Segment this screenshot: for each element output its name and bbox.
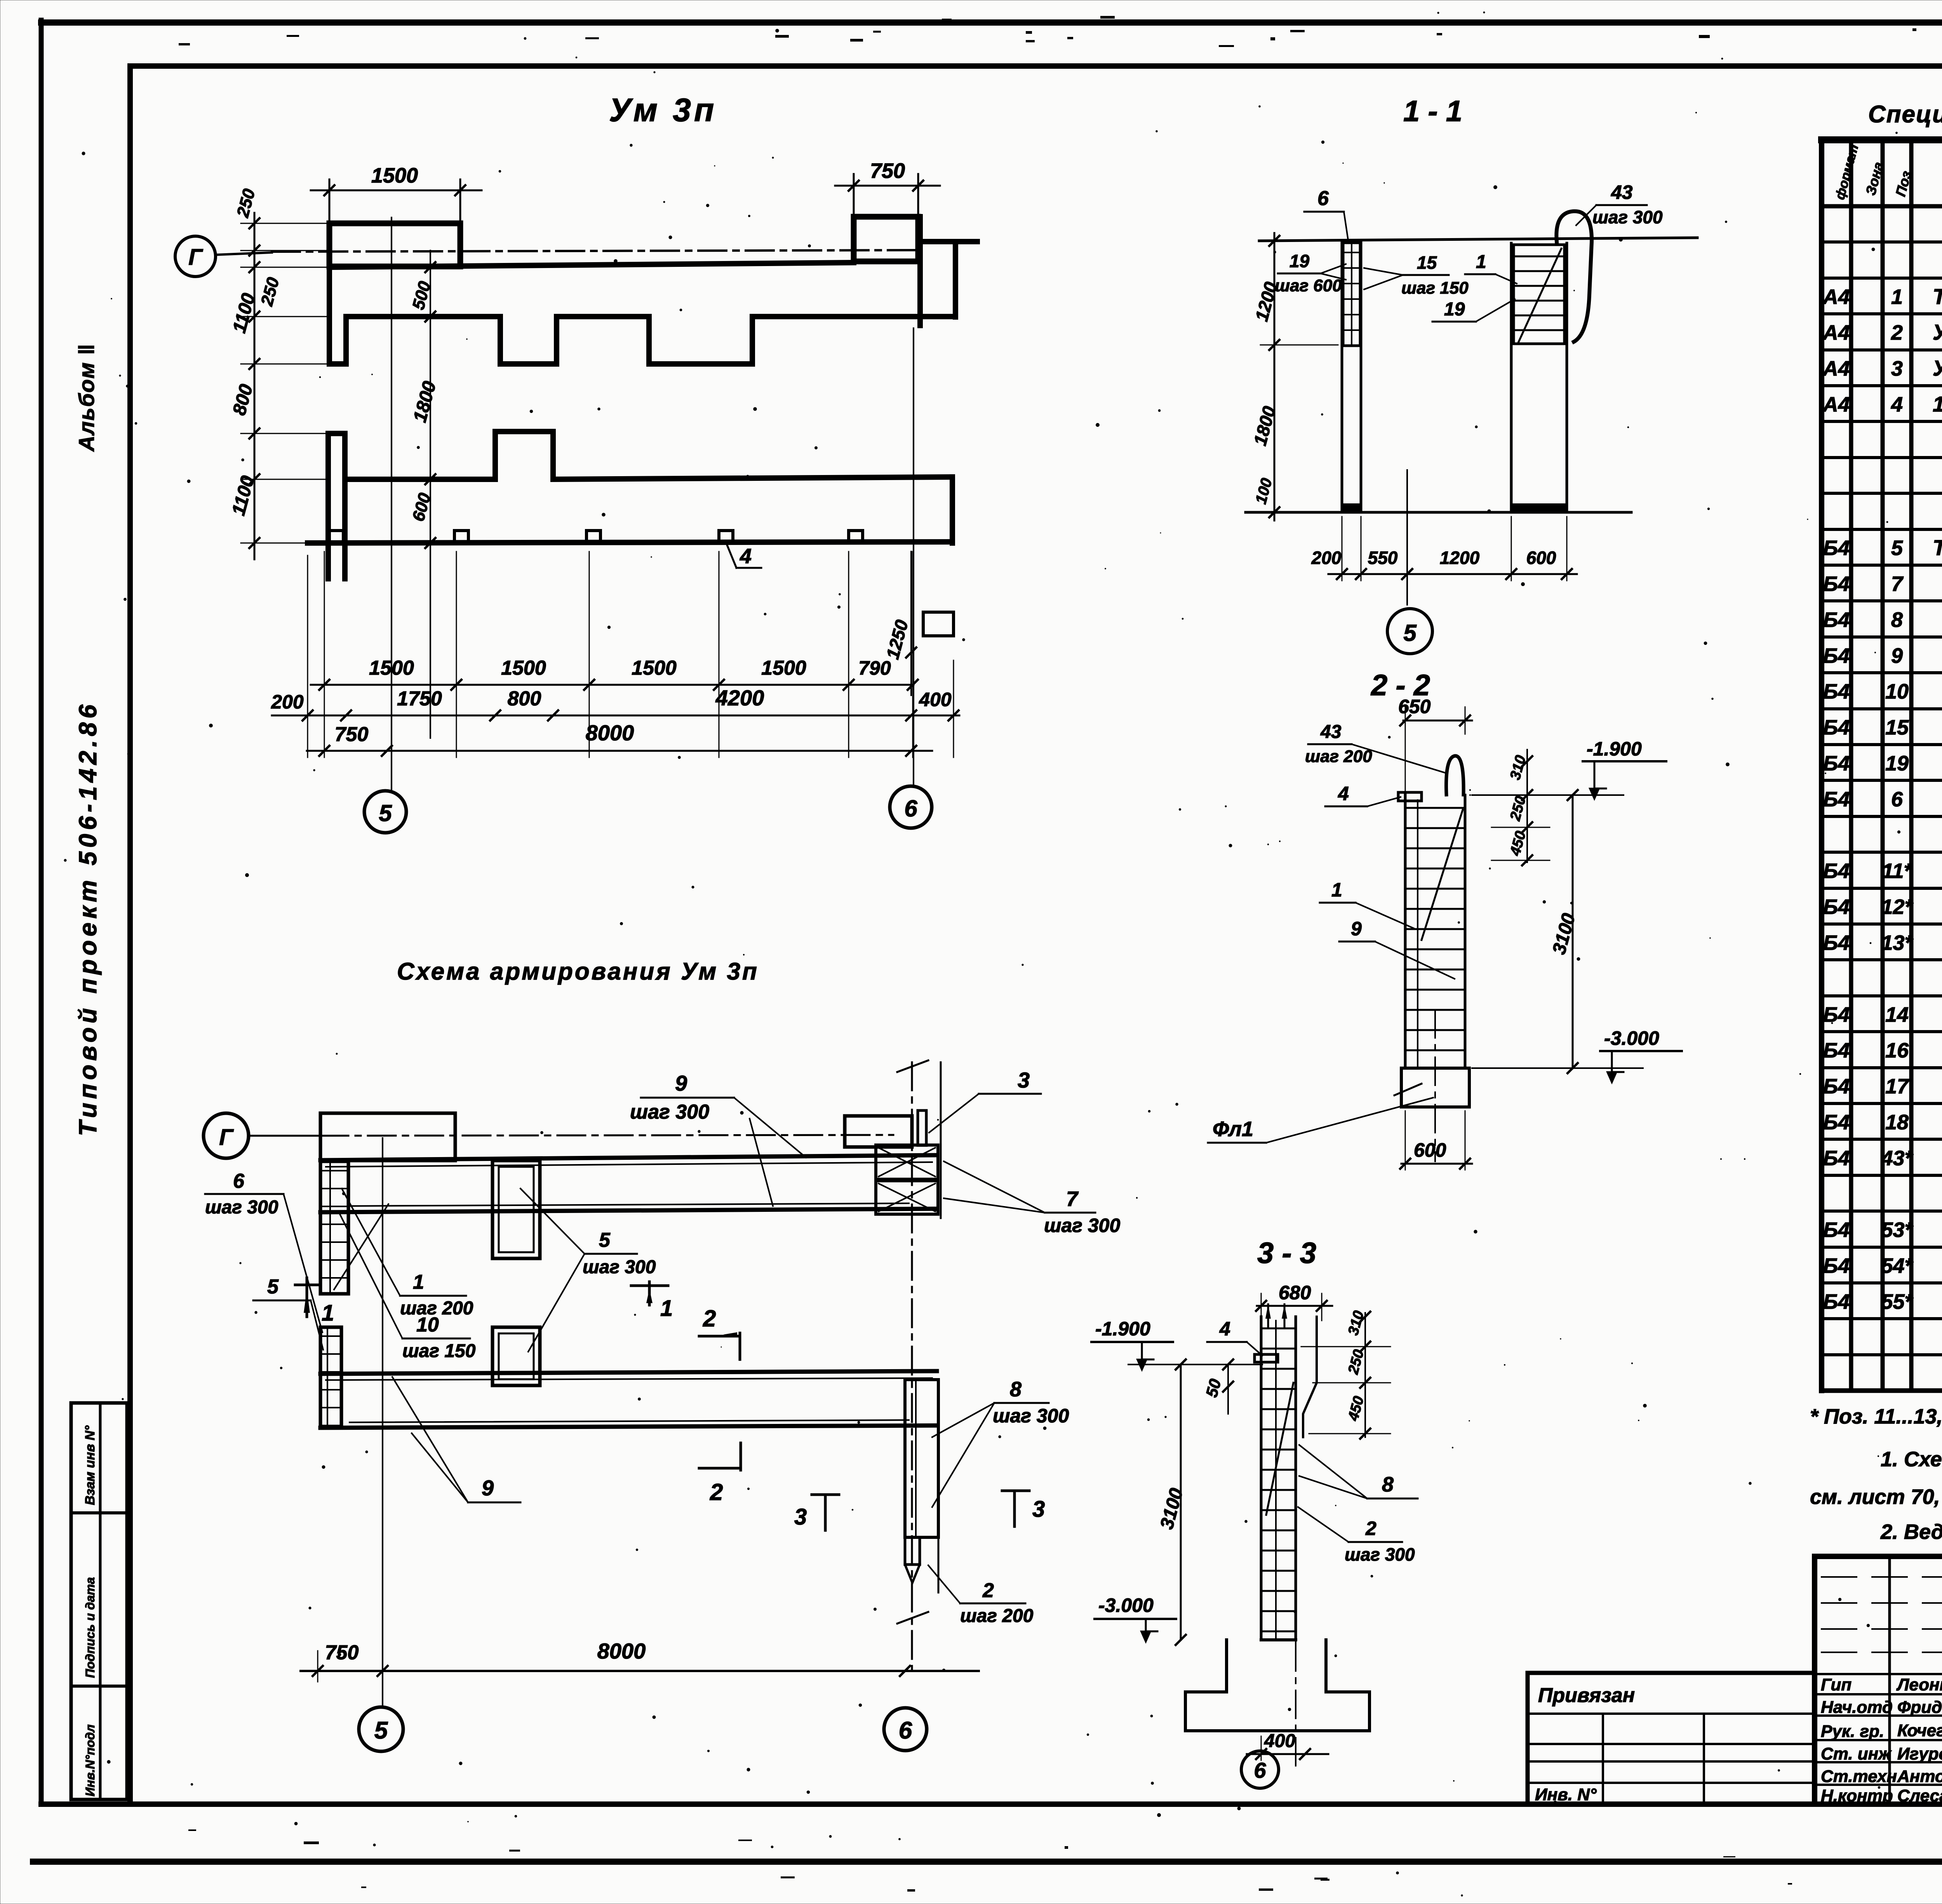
svg-text:10: 10 — [1885, 680, 1909, 703]
svg-text:8000: 8000 — [597, 1639, 646, 1663]
svg-text:шаг 300: шаг 300 — [993, 1405, 1069, 1427]
plan axis Г circle — [175, 236, 216, 277]
svg-text:19: 19 — [1444, 299, 1465, 320]
svg-text:Б4: Б4 — [1823, 788, 1850, 811]
svg-text:см. лист 70, для дверей ДУⅢ: см. лист 70, для дверей ДУⅢ-6 см. лист 7… — [1810, 1485, 1942, 1509]
scan noise — [1721, 58, 1723, 60]
svg-text:9: 9 — [675, 1071, 687, 1095]
page border frame — [41, 19, 1942, 26]
scheme upper beam left cage — [320, 1161, 348, 1294]
svg-text:10: 10 — [416, 1314, 439, 1336]
svg-text:1800: 1800 — [409, 379, 440, 425]
svg-text:шаг 300: шаг 300 — [205, 1197, 278, 1218]
section 1-1 left dims — [1274, 233, 1276, 520]
svg-text:5: 5 — [599, 1229, 611, 1251]
svg-text:550: 550 — [1368, 548, 1398, 568]
svg-text:1: 1 — [660, 1296, 673, 1321]
svg-text:шаг 300: шаг 300 — [630, 1101, 709, 1123]
inner drawing frame — [130, 63, 1942, 69]
svg-text:4: 4 — [740, 545, 752, 568]
section 3-3 dim 3100 — [1180, 1364, 1182, 1640]
svg-text:250: 250 — [1345, 1348, 1367, 1376]
svg-text:шаг 300: шаг 300 — [1345, 1544, 1415, 1565]
section 3-3 top arrows — [1265, 1304, 1271, 1319]
section 3-3 top plate — [1255, 1354, 1278, 1362]
svg-text:800: 800 — [229, 382, 257, 417]
title block staff rows — [1815, 1673, 1942, 1675]
svg-text:Инв.N°подл: Инв.N°подл — [83, 1725, 97, 1796]
svg-text:Б4: Б4 — [1823, 1075, 1850, 1098]
svg-text:680: 680 — [1279, 1282, 1311, 1304]
svg-text:11*: 11* — [1882, 860, 1913, 883]
svg-text:3: 3 — [1018, 1068, 1030, 1092]
svg-text:Антонова: Антонова — [1897, 1767, 1942, 1786]
svg-text:5: 5 — [1891, 536, 1903, 560]
svg-text:8: 8 — [1382, 1473, 1394, 1496]
svg-text:Взам инв N°: Взам инв N° — [83, 1425, 97, 1505]
svg-text:Б4: Б4 — [1823, 1147, 1850, 1170]
svg-text:6: 6 — [904, 795, 917, 821]
svg-text:Леонтьев: Леонтьев — [1896, 1675, 1942, 1694]
scheme section mark 1 right — [648, 1282, 651, 1305]
scheme section mark 3 left — [812, 1493, 839, 1496]
section 1-1 bottom dims — [1328, 573, 1577, 575]
svg-text:Подпись и дата: Подпись и дата — [83, 1577, 97, 1678]
plan wall band A — [329, 263, 854, 267]
svg-text:1: 1 — [1476, 252, 1486, 272]
svg-text:1500: 1500 — [761, 657, 806, 679]
plan dim 750 top — [853, 174, 855, 214]
svg-text:А4: А4 — [1822, 321, 1850, 345]
svg-text:У-01-01/80.2 -010-02: У-01-01/80.2 -010-02 — [1933, 320, 1942, 345]
svg-text:7: 7 — [1066, 1187, 1079, 1211]
svg-text:16: 16 — [1885, 1039, 1909, 1062]
svg-text:1: 1 — [413, 1271, 424, 1293]
svg-text:310: 310 — [1345, 1309, 1367, 1337]
svg-text:43: 43 — [1611, 181, 1633, 203]
svg-text:Г: Г — [188, 245, 203, 270]
svg-text:15: 15 — [1417, 252, 1437, 273]
svg-text:Типовой проект 506-142.86: Типовой проект 506-142.86 — [74, 701, 102, 1136]
svg-text:1500: 1500 — [369, 657, 414, 679]
section 3-3 column — [1260, 1317, 1263, 1640]
scheme bottom dim — [301, 1670, 979, 1672]
svg-text:Б4: Б4 — [1823, 931, 1850, 955]
svg-text:6: 6 — [233, 1170, 245, 1192]
scheme top plate right — [845, 1116, 912, 1147]
svg-text:6: 6 — [899, 1717, 912, 1744]
svg-text:3: 3 — [794, 1504, 807, 1530]
svg-text:100: 100 — [1252, 476, 1276, 506]
svg-text:250: 250 — [1507, 794, 1529, 823]
svg-text:3100: 3100 — [1156, 1486, 1187, 1532]
svg-text:1: 1 — [322, 1300, 334, 1326]
svg-text:4: 4 — [1219, 1318, 1230, 1340]
svg-text:18: 18 — [1885, 1111, 1909, 1134]
svg-text:ТП506-142.86 -КЖИ-705.00: ТП506-142.86 -КЖИ-705.00 — [1933, 284, 1942, 308]
svg-text:15: 15 — [1885, 716, 1909, 739]
svg-text:2. Ведомость расхода стали н: 2. Ведомость расхода стали на Ум3п см. л… — [1880, 1520, 1942, 1544]
plan axis Г line — [216, 252, 272, 255]
svg-text:Инв. N°: Инв. N° — [1535, 1785, 1597, 1804]
svg-text:6: 6 — [1891, 788, 1903, 811]
section 2-2 dim 3100 — [1572, 795, 1574, 1068]
svg-text:5: 5 — [379, 800, 392, 826]
section 1-1 right wall — [1510, 243, 1513, 512]
svg-text:3: 3 — [1891, 357, 1903, 380]
plan inner dimension chain 500 1800 600 — [430, 251, 431, 738]
svg-text:17: 17 — [1885, 1075, 1910, 1098]
scheme axis 6 line — [911, 1062, 913, 1670]
svg-text:200: 200 — [271, 691, 304, 713]
svg-text:Ум 3п: Ум 3п — [609, 92, 717, 128]
svg-text:Фрид: Фрид — [1897, 1698, 1942, 1717]
section 2-2 column — [1404, 795, 1407, 1068]
svg-text:5: 5 — [374, 1717, 388, 1744]
svg-text:1200: 1200 — [1251, 280, 1281, 324]
svg-text:3100: 3100 — [1549, 911, 1579, 957]
section 1-1 left wall — [1341, 241, 1343, 512]
plan wall band C — [325, 433, 331, 579]
plan top plate rect 750 — [854, 217, 918, 261]
section 1-1 axis line — [1406, 470, 1408, 605]
svg-text:8000: 8000 — [586, 721, 634, 745]
svg-text:1500: 1500 — [632, 657, 677, 679]
svg-text:43*: 43* — [1881, 1147, 1914, 1170]
plan axis line 6 — [913, 328, 914, 785]
svg-text:450: 450 — [1507, 829, 1529, 858]
svg-text:формат: формат — [1832, 143, 1861, 201]
svg-text:1. Схему установки анкеров: 1. Схему установки анкеров для крепления… — [1881, 1448, 1942, 1471]
plan bottom dims row3 — [307, 750, 932, 752]
plan leader 4 — [726, 542, 736, 568]
svg-text:400: 400 — [1264, 1731, 1295, 1751]
section 1-1 hook 43 — [1556, 211, 1592, 342]
scheme lower beam right cage — [905, 1380, 938, 1537]
svg-text:750: 750 — [870, 159, 905, 183]
svg-text:450: 450 — [1345, 1394, 1367, 1423]
svg-text:Кочегировская: Кочегировская — [1897, 1721, 1942, 1740]
svg-text:Б4: Б4 — [1823, 752, 1850, 775]
svg-text:7: 7 — [1891, 573, 1904, 596]
scheme upper beam middle cage — [492, 1161, 540, 1258]
svg-text:-1.900: -1.900 — [1095, 1318, 1150, 1340]
svg-text:шаг 300: шаг 300 — [1592, 207, 1663, 227]
svg-text:Г: Г — [219, 1125, 234, 1150]
svg-text:А4: А4 — [1822, 285, 1850, 308]
scheme section mark 1 left — [306, 1278, 308, 1317]
svg-text:19: 19 — [1885, 752, 1909, 775]
svg-text:4: 4 — [1338, 783, 1349, 804]
plan wall band A right end — [917, 217, 923, 325]
svg-text:Б4: Б4 — [1823, 680, 1850, 703]
svg-text:9: 9 — [1891, 644, 1903, 667]
svg-text:600: 600 — [1526, 548, 1556, 568]
svg-text:Б4: Б4 — [1823, 536, 1850, 560]
svg-text:Ст. инж: Ст. инж — [1821, 1744, 1892, 1763]
svg-text:* Поз. 11...13, 43, 53...55: * Поз. 11...13, 43, 53...55 см. ведомост… — [1810, 1405, 1942, 1428]
svg-text:1 - 1: 1 - 1 — [1403, 95, 1462, 128]
svg-text:шаг 150: шаг 150 — [402, 1341, 476, 1361]
svg-text:Фл1: Фл1 — [1213, 1117, 1253, 1141]
svg-text:А4: А4 — [1822, 393, 1850, 416]
section 3-3 level line — [1128, 1364, 1262, 1365]
svg-text:14: 14 — [1885, 1003, 1909, 1026]
svg-text:шаг 300: шаг 300 — [1044, 1215, 1120, 1236]
svg-text:1: 1 — [1331, 879, 1342, 901]
plan axis circle 5 — [364, 791, 406, 833]
section 3-3 foundation — [1185, 1640, 1369, 1731]
scheme section mark 2 lower — [740, 1443, 742, 1470]
svg-text:Б4: Б4 — [1823, 608, 1850, 632]
svg-text:Б4: Б4 — [1823, 644, 1850, 667]
scheme axis circle 5 — [359, 1707, 403, 1751]
section 2-2 foundation — [1401, 1068, 1469, 1107]
section 3-3 right dims — [1364, 1313, 1366, 1437]
svg-text:шаг 200: шаг 200 — [1305, 747, 1372, 766]
svg-text:Б4: Б4 — [1823, 1290, 1850, 1314]
plan axis line 5 — [391, 218, 392, 790]
scheme upper beam — [320, 1155, 937, 1160]
plan dim 1500 top — [329, 179, 331, 221]
svg-text:8: 8 — [1891, 608, 1903, 632]
scheme axis circle 6 — [884, 1708, 927, 1751]
svg-text:Нач.отд: Нач.отд — [1821, 1698, 1893, 1717]
section 3-3 right step — [1303, 1317, 1317, 1437]
title block left attachment table — [1528, 1673, 1815, 1804]
section 3-3 axis line — [1295, 1643, 1296, 1771]
svg-text:шаг 200: шаг 200 — [960, 1606, 1034, 1626]
svg-text:-1.900: -1.900 — [1587, 738, 1642, 760]
svg-text:50: 50 — [1202, 1377, 1224, 1399]
svg-text:6: 6 — [1254, 1758, 1266, 1782]
plan bottom dims row1 — [311, 684, 914, 686]
svg-text:Альбом ‖: Альбом ‖ — [74, 343, 99, 452]
svg-text:1500: 1500 — [501, 657, 546, 679]
svg-text:400: 400 — [919, 689, 952, 710]
svg-text:650: 650 — [1398, 696, 1431, 717]
svg-text:Б4: Б4 — [1823, 1111, 1850, 1134]
svg-text:2: 2 — [1365, 1518, 1376, 1539]
svg-text:4200: 4200 — [715, 686, 764, 710]
plan embedded plates poz.4 — [329, 531, 343, 542]
svg-text:54*: 54* — [1881, 1254, 1914, 1277]
scheme lower beam left cage — [320, 1327, 341, 1428]
svg-text:Б4: Б4 — [1823, 1003, 1850, 1026]
scheme section mark 3 right — [1002, 1490, 1029, 1492]
svg-text:Б4: Б4 — [1823, 1039, 1850, 1062]
svg-text:Б4: Б4 — [1823, 1254, 1850, 1277]
plan left dimension chain — [254, 213, 256, 559]
section 1-1 bottom line — [1246, 511, 1631, 514]
svg-text:8: 8 — [1010, 1378, 1021, 1401]
svg-text:43: 43 — [1320, 722, 1342, 742]
svg-text:6: 6 — [1317, 187, 1329, 210]
spec table rows — [1822, 240, 1942, 244]
section 2-2 hook 43 — [1446, 756, 1463, 795]
svg-text:Игурова: Игурова — [1897, 1744, 1942, 1763]
svg-text:19: 19 — [1289, 251, 1310, 271]
section 1-1 top line — [1259, 238, 1697, 241]
section 2-2 small dims right — [1526, 750, 1528, 862]
svg-text:53*: 53* — [1881, 1218, 1914, 1242]
svg-text:1500: 1500 — [371, 164, 418, 187]
svg-text:4: 4 — [1891, 393, 1903, 416]
section 1-1 axis circle 5 — [1387, 609, 1432, 654]
svg-text:800: 800 — [508, 687, 541, 710]
spec table outer grid — [1819, 140, 1824, 1391]
svg-text:12*: 12* — [1881, 895, 1914, 919]
plan top plate rect 1500 — [329, 223, 460, 266]
svg-text:1: 1 — [1891, 285, 1903, 308]
svg-text:А4: А4 — [1822, 357, 1850, 380]
svg-text:Б4: Б4 — [1823, 895, 1850, 919]
svg-text:750: 750 — [325, 1641, 359, 1664]
scheme upper beam right cage — [876, 1145, 938, 1179]
svg-text:Ст.техн: Ст.техн — [1821, 1767, 1897, 1786]
svg-text:шаг 150: шаг 150 — [1401, 278, 1469, 298]
scheme top plate left — [320, 1113, 455, 1161]
svg-text:5: 5 — [267, 1276, 279, 1298]
svg-text:Б4: Б4 — [1823, 860, 1850, 883]
svg-text:1750: 1750 — [397, 687, 442, 710]
svg-text:шаг 600: шаг 600 — [1275, 276, 1342, 295]
svg-text:Слесарева: Слесарева — [1897, 1786, 1942, 1805]
svg-text:-3.000: -3.000 — [1098, 1594, 1154, 1616]
svg-text:9: 9 — [482, 1476, 494, 1500]
svg-text:1200: 1200 — [1440, 548, 1480, 568]
svg-text:5: 5 — [1403, 620, 1417, 646]
svg-text:310: 310 — [1507, 754, 1529, 781]
svg-text:ТП506-142.86 -КЖ 1060.00: ТП506-142.86 -КЖ 1060.00 — [1933, 535, 1942, 560]
svg-text:750: 750 — [335, 723, 369, 746]
section 2-2 axis line — [1434, 1010, 1436, 1161]
scheme lower beam — [320, 1371, 937, 1374]
section 2-2 top plate 4 — [1398, 792, 1422, 801]
svg-text:Схема армирования Ум 3п: Схема армирования Ум 3п — [397, 958, 759, 985]
svg-text:Привязан: Привязан — [1538, 1684, 1635, 1707]
svg-text:1.400-6/76.1: 1.400-6/76.1 — [1933, 392, 1942, 416]
scheme axis 5 line — [382, 1138, 383, 1707]
svg-text:Б4: Б4 — [1823, 716, 1850, 739]
svg-text:Б4: Б4 — [1823, 1218, 1850, 1242]
svg-text:55*: 55* — [1881, 1290, 1914, 1314]
svg-text:-3.000: -3.000 — [1604, 1027, 1659, 1049]
scheme lower beam middle cage — [492, 1327, 540, 1385]
svg-text:2: 2 — [982, 1579, 994, 1602]
svg-text:2: 2 — [1891, 321, 1903, 345]
svg-text:2: 2 — [710, 1479, 723, 1505]
svg-text:шаг 300: шаг 300 — [583, 1257, 656, 1277]
svg-text:Н.контр: Н.контр — [1821, 1786, 1893, 1805]
svg-text:Б4: Б4 — [1823, 573, 1850, 596]
scheme axis Г circle — [204, 1113, 249, 1158]
plan axis circle 6 — [890, 786, 932, 828]
svg-text:250: 250 — [257, 275, 283, 308]
svg-text:У-01-01/80.5-010: У-01-01/80.5-010 — [1933, 356, 1942, 380]
svg-text:600: 600 — [1414, 1139, 1446, 1161]
svg-text:Рук. гр.: Рук. гр. — [1821, 1722, 1884, 1741]
scheme part 3 pocket — [918, 1110, 926, 1145]
svg-text:3 - 3: 3 - 3 — [1257, 1237, 1316, 1270]
title block staff columns — [1888, 1556, 1891, 1804]
svg-text:3: 3 — [1032, 1497, 1045, 1522]
plan dim 1250 right — [910, 552, 912, 695]
svg-text:790: 790 — [858, 657, 891, 679]
svg-text:Гип: Гип — [1821, 1675, 1852, 1694]
title block frame — [1815, 1556, 1942, 1804]
plan bottom dims row2 — [272, 715, 959, 717]
margin stamp boxes — [71, 1403, 127, 1800]
svg-text:200: 200 — [1311, 548, 1342, 568]
svg-text:13*: 13* — [1881, 931, 1914, 955]
svg-text:Спецификация монолитного уча: Спецификация монолитного участка Ум 3п — [1868, 101, 1942, 128]
svg-text:2: 2 — [703, 1305, 716, 1331]
section 3-3 axis circle 6 — [1241, 1751, 1279, 1788]
svg-text:9: 9 — [1351, 918, 1362, 940]
